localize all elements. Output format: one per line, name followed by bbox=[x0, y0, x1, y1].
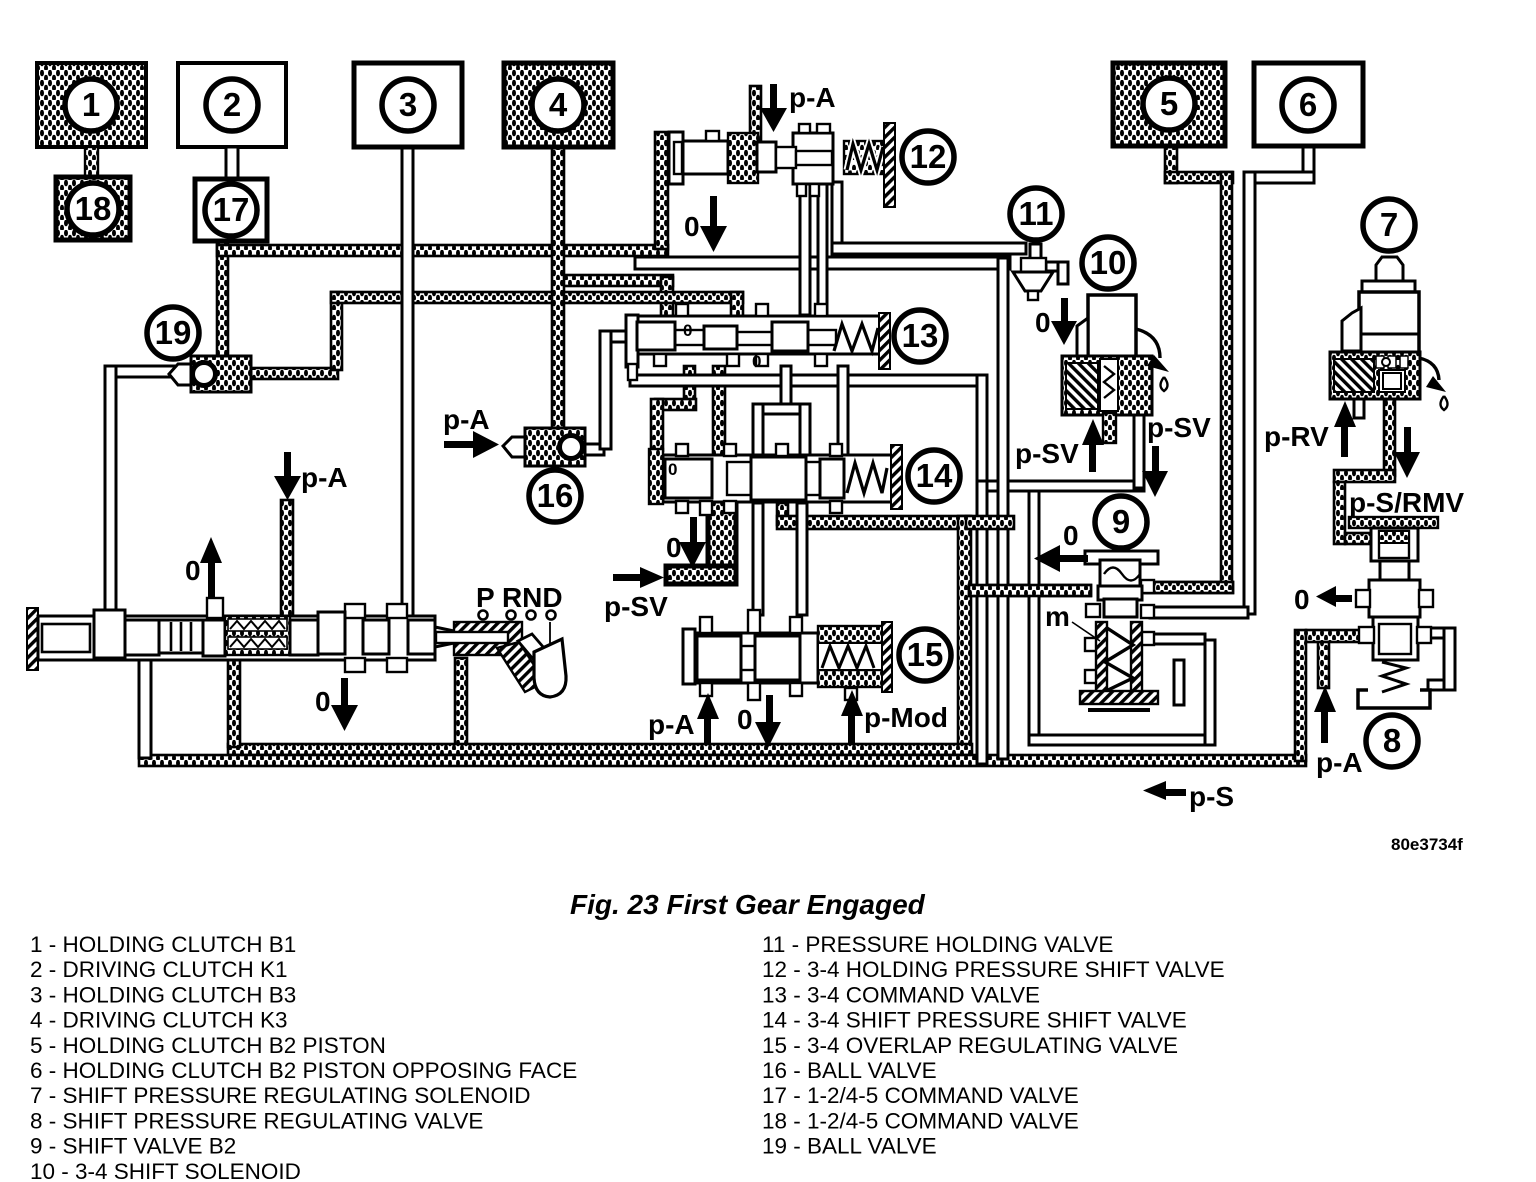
svg-text:8: 8 bbox=[1383, 722, 1401, 759]
svg-text:0: 0 bbox=[752, 352, 761, 371]
svg-text:p-A: p-A bbox=[648, 709, 695, 740]
wire hatched drain below manual valve to lower run bbox=[455, 658, 467, 748]
wire small loop right of valve 11 bbox=[1046, 262, 1064, 271]
wire hatched branch run B from box4 pipe to valve 13 bbox=[558, 275, 673, 286]
wire hatched left feed of valve 12 bbox=[655, 132, 668, 249]
valve 11 pressure holding valve bbox=[1010, 188, 1062, 300]
node 0 drain below valve 15 bbox=[766, 695, 773, 725]
svg-text:1 - HOLDING CLUTCH B1: 1 - HOLDING CLUTCH B1 bbox=[30, 932, 296, 957]
svg-text:17: 17 bbox=[213, 191, 250, 228]
svg-text:9: 9 bbox=[1112, 503, 1130, 540]
wire loop right of valve 8 bbox=[1444, 628, 1455, 690]
wire hatched p-Mod run from valve 14 bottom to valve 9 area bbox=[777, 503, 788, 525]
wire manual valve left drain to lower run bbox=[139, 658, 151, 758]
svg-text:14 - 3-4 SHIFT PRESSURE SHIFT: 14 - 3-4 SHIFT PRESSURE SHIFT VALVE bbox=[762, 1008, 1187, 1033]
wire p-A hatched stub into valve 12 top bbox=[750, 86, 761, 140]
svg-text:19 - BALL VALVE: 19 - BALL VALVE bbox=[762, 1134, 937, 1159]
node p-A into valve 8 riser bbox=[1314, 686, 1336, 712]
svg-text:2 - DRIVING CLUTCH K1: 2 - DRIVING CLUTCH K1 bbox=[30, 957, 288, 982]
svg-text:11 - PRESSURE HOLDING VALVE: 11 - PRESSURE HOLDING VALVE bbox=[762, 932, 1113, 957]
svg-text:7 - SHIFT PRESSURE REGULATING: 7 - SHIFT PRESSURE REGULATING SOLENOID bbox=[30, 1083, 531, 1108]
svg-text:0: 0 bbox=[315, 686, 331, 717]
node p-A into valve 15 bbox=[697, 693, 719, 719]
node flow down from solenoid 7 bbox=[1404, 427, 1411, 455]
svg-text:10 - 3-4 SHIFT SOLENOID: 10 - 3-4 SHIFT SOLENOID bbox=[30, 1159, 301, 1182]
svg-text:12: 12 bbox=[910, 138, 947, 175]
valve 15 3-4 overlap regulating valve bbox=[683, 610, 951, 700]
svg-text:p-S: p-S bbox=[1189, 781, 1234, 812]
holding clutch B2 opposing face box 6 bbox=[1254, 63, 1363, 146]
LABELS_START bbox=[185, 82, 1464, 854]
ball valve 19 bbox=[147, 307, 251, 392]
svg-text:5 - HOLDING CLUTCH B2 PISTON: 5 - HOLDING CLUTCH B2 PISTON bbox=[30, 1033, 386, 1058]
wire hatched overlay p-Mod horizontal crossing bbox=[966, 516, 1014, 529]
svg-text:0: 0 bbox=[737, 704, 753, 735]
wire pipe from valve 12 to holding valve 11 bbox=[832, 182, 842, 247]
svg-text:12 - 3-4 HOLDING PRESSURE SHIF: 12 - 3-4 HOLDING PRESSURE SHIFT VALVE bbox=[762, 957, 1225, 982]
svg-text:p-A: p-A bbox=[301, 462, 348, 493]
valve 9 shift valve B2 bbox=[1072, 496, 1158, 712]
node 0 drain at valve 8 bbox=[1332, 595, 1352, 602]
wire hatched p-A riser to valve 8 bbox=[1295, 630, 1306, 761]
svg-text:0: 0 bbox=[666, 532, 682, 563]
command valve box 18 bbox=[56, 177, 130, 240]
wire hatched pipe from box 5 down to valve 9 right port bbox=[1165, 146, 1177, 183]
wire p-RV stub below solenoid 7 bbox=[1354, 398, 1364, 418]
driving clutch K3 box 4 bbox=[504, 63, 613, 147]
svg-text:15: 15 bbox=[907, 636, 944, 673]
svg-text:16: 16 bbox=[537, 477, 574, 514]
svg-text:P RND: P RND bbox=[476, 582, 563, 613]
svg-text:9 - SHIFT VALVE B2: 9 - SHIFT VALVE B2 bbox=[30, 1134, 236, 1159]
wire hatched run from valve 17 to valve 12 (p-RMV) bbox=[217, 241, 228, 358]
svg-text:13 - 3-4 COMMAND VALVE: 13 - 3-4 COMMAND VALVE bbox=[762, 982, 1040, 1007]
svg-text:p-A: p-A bbox=[443, 404, 490, 435]
svg-text:6 - HOLDING CLUTCH B2 PISTON O: 6 - HOLDING CLUTCH B2 PISTON OPPOSING FA… bbox=[30, 1058, 577, 1083]
valve 12 3-4 holding pressure shift valve bbox=[669, 123, 954, 207]
wire connectors valve 14 bottom to valve 15 top bbox=[753, 503, 763, 615]
svg-text:p-A: p-A bbox=[789, 82, 836, 113]
svg-text:p-SV: p-SV bbox=[1015, 438, 1079, 469]
svg-text:16 - BALL VALVE: 16 - BALL VALVE bbox=[762, 1058, 937, 1083]
wire plain pipe from box 6 down to valve 9 right port bbox=[1303, 146, 1314, 183]
svg-text:18 - 1-2/4-5 COMMAND VALVE: 18 - 1-2/4-5 COMMAND VALVE bbox=[762, 1108, 1079, 1133]
wire drain collector bar below valve 12 bbox=[635, 257, 1010, 269]
holding clutch B2 piston box 5 bbox=[1113, 63, 1225, 146]
node p-SV out of solenoid 10 bbox=[1152, 446, 1159, 474]
wire mid vertical pipes down to bottom runs bbox=[998, 258, 1008, 759]
svg-text:7: 7 bbox=[1380, 206, 1398, 243]
svg-text:0: 0 bbox=[1294, 584, 1310, 615]
node p-A arrow into manual valve bbox=[284, 452, 291, 478]
wire pipe ball valve 16 up to valve 13 left bbox=[584, 444, 604, 455]
wire hatched p-A pipe into manual valve bbox=[281, 500, 293, 618]
solenoid 10 3-4 shift solenoid bbox=[1062, 237, 1169, 443]
wire hatched run C from ball valve 19 to valve 13 top bbox=[250, 368, 338, 379]
command valve box 17 bbox=[195, 179, 267, 241]
svg-text:17 - 1-2/4-5 COMMAND VALVE: 17 - 1-2/4-5 COMMAND VALVE bbox=[762, 1083, 1079, 1108]
wire hatched Z pipe from solenoid 7 base to valve 8 bbox=[1384, 396, 1395, 476]
svg-text:p-A: p-A bbox=[1316, 747, 1363, 778]
svg-text:0: 0 bbox=[1063, 520, 1079, 551]
svg-text:18: 18 bbox=[75, 190, 112, 227]
svg-text:p-RV: p-RV bbox=[1264, 421, 1329, 452]
svg-text:80e3734f: 80e3734f bbox=[1391, 835, 1463, 854]
svg-text:p-SV: p-SV bbox=[1147, 412, 1211, 443]
ball valve 16 bbox=[503, 428, 585, 522]
LEGEND_START bbox=[30, 889, 1225, 1182]
wire connectors valve 13 bottom to valve 14 top bbox=[781, 366, 791, 410]
svg-text:10: 10 bbox=[1090, 244, 1127, 281]
wire hatched pipe from box 4 down to ball valve 16 bbox=[552, 147, 564, 431]
node 0 port on manual valve top bbox=[200, 537, 222, 563]
holding clutch B1 box 1 bbox=[37, 63, 146, 177]
node p-A arrow into valve 12 bbox=[770, 84, 777, 110]
svg-text:13: 13 bbox=[902, 317, 939, 354]
node p-SV into solenoid 10 bbox=[1082, 419, 1104, 445]
node 0 drain below valve 14 bbox=[690, 517, 697, 545]
node 0 drain at valve 9 bbox=[1056, 555, 1088, 562]
svg-text:0: 0 bbox=[668, 460, 677, 479]
valve 14 3-4 shift pressure shift valve bbox=[649, 444, 960, 515]
svg-text:Fig. 23 First Gear Engaged: Fig. 23 First Gear Engaged bbox=[570, 889, 926, 920]
svg-text:0: 0 bbox=[684, 211, 700, 242]
svg-text:2: 2 bbox=[223, 86, 241, 123]
svg-text:p-Mod: p-Mod bbox=[864, 702, 948, 733]
valve 13 3-4 command valve bbox=[626, 304, 946, 380]
wire U loop below valve 9 bbox=[1029, 491, 1039, 743]
svg-text:4 - DRIVING CLUTCH K3: 4 - DRIVING CLUTCH K3 bbox=[30, 1008, 288, 1033]
svg-text:19: 19 bbox=[155, 314, 192, 351]
wire upper bottom hatched run bbox=[228, 744, 972, 755]
svg-text:p-SV: p-SV bbox=[604, 591, 668, 622]
svg-text:0: 0 bbox=[1035, 307, 1051, 338]
svg-text:6: 6 bbox=[1299, 86, 1317, 123]
solenoid 7 shift pressure regulating solenoid bbox=[1330, 199, 1448, 410]
wire drains below valve 12 to valve 13 bbox=[800, 182, 810, 315]
manual selector valve P RND bbox=[27, 598, 566, 697]
svg-text:15 - 3-4 OVERLAP REGULATING VA: 15 - 3-4 OVERLAP REGULATING VALVE bbox=[762, 1033, 1178, 1058]
holding clutch B3 box 3 bbox=[354, 63, 462, 147]
svg-text:0: 0 bbox=[683, 321, 692, 340]
svg-text:0: 0 bbox=[185, 555, 201, 586]
svg-text:1: 1 bbox=[82, 86, 100, 123]
svg-text:5: 5 bbox=[1160, 85, 1178, 122]
node p-A arrow into ball valve 16 bbox=[444, 441, 477, 448]
wire long line D from valve 13 to solenoid 10 bbox=[630, 375, 987, 386]
valve 8 shift pressure regulating valve bbox=[1349, 517, 1438, 767]
node p-S flow label bbox=[1162, 789, 1186, 796]
node p-SV arrow into thick pipe bbox=[613, 574, 643, 581]
PIPES_START bbox=[139, 86, 1395, 766]
svg-text:3 - HOLDING CLUTCH B3: 3 - HOLDING CLUTCH B3 bbox=[30, 982, 296, 1007]
svg-text:8 - SHIFT PRESSURE REGULATING: 8 - SHIFT PRESSURE REGULATING VALVE bbox=[30, 1108, 483, 1133]
node 0 drain at valve 11 bbox=[1061, 298, 1068, 324]
wire plain pipe from box 3 down to manual valve bbox=[402, 147, 413, 617]
node 0 drain below valve 12 bbox=[710, 196, 717, 228]
driving clutch K1 box 2 bbox=[178, 63, 286, 179]
wire hatched overlay box5 run into valve 9 bbox=[1145, 582, 1233, 593]
svg-text:m: m bbox=[1045, 601, 1070, 632]
wire left pipe of ball valve 19 down to manual valve bbox=[105, 366, 191, 377]
wire hatched elbow valve 13 to valve 14 left end bbox=[684, 366, 695, 406]
svg-text:11: 11 bbox=[1019, 195, 1054, 232]
svg-text:14: 14 bbox=[916, 457, 953, 494]
node 0 drain below manual valve bbox=[341, 678, 348, 708]
node p-Mod into valve 15 bbox=[841, 690, 863, 716]
node p-RV into solenoid 7 bbox=[1334, 401, 1356, 427]
wire hatched overlay p-Mod run into valve 9 bbox=[969, 585, 1091, 596]
svg-text:3: 3 bbox=[399, 86, 417, 123]
wire lower bottom hatched run (p-S) bbox=[139, 755, 1306, 766]
wire thick hatched p-SV pipe from valve 13 down bbox=[713, 366, 725, 501]
svg-text:p-S/RMV: p-S/RMV bbox=[1349, 487, 1464, 518]
svg-text:4: 4 bbox=[549, 86, 568, 123]
